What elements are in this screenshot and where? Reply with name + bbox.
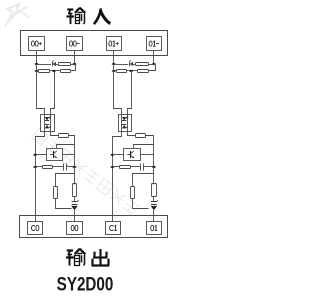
resistor R2 — [61, 70, 71, 73]
node B junction — [73, 63, 77, 65]
wire row2 bend up ch1 — [149, 65, 156, 71]
wire R4 to mid rail — [69, 136, 75, 167]
resistor R3 — [39, 70, 50, 73]
wire node C to opto — [51, 71, 55, 115]
resistor R4 — [59, 134, 69, 138]
wire row1 right ch1 — [148, 64, 155, 66]
wire base branch ch1 — [134, 145, 154, 149]
wire loop top — [74, 167, 76, 185]
wire to capacitor C1 ch1 — [130, 166, 140, 168]
wire row1 right — [71, 64, 76, 66]
terminal 01 — [147, 222, 162, 235]
output terminal strip — [20, 216, 168, 238]
terminal C1 — [106, 222, 121, 235]
wire row1 mid ch1 — [133, 64, 136, 66]
resistor R5 — [43, 166, 53, 169]
junction cap row right ch1 — [152, 166, 156, 168]
wire loop bottom — [56, 199, 72, 209]
wire R7 to zener — [74, 197, 76, 201]
wire lead from 00- terminal — [74, 51, 76, 65]
wire plus rail to opto — [37, 65, 45, 115]
wire loop left — [56, 174, 75, 187]
svg-text:SY2D00: SY2D00 — [57, 273, 114, 295]
wire opto left pin to rail — [36, 132, 45, 222]
optocoupler U1 input — [41, 115, 55, 132]
wire row1 left ch1 — [114, 64, 129, 66]
resistor R5 ch1 — [120, 166, 131, 169]
junction cap row right — [73, 166, 77, 168]
resistor R3 ch1 — [117, 70, 127, 73]
wire Q1 left — [35, 154, 46, 156]
transistor Q1 ch1 — [124, 149, 141, 161]
resistor R1 — [59, 63, 71, 66]
title output (chu) — [92, 249, 110, 265]
node A junction ch1 — [112, 63, 116, 65]
resistor R6 — [54, 187, 58, 199]
terminal 00+ — [29, 37, 45, 51]
wire row2 left ch1 — [114, 70, 117, 72]
wire lead from 01- terminal — [153, 51, 155, 65]
transistor Q1 — [47, 149, 63, 161]
wire opto left pin to rail ch1 — [113, 132, 122, 222]
terminal C0 — [28, 222, 43, 235]
wire cap row right — [67, 166, 75, 168]
title output (shu) — [66, 249, 85, 266]
wire to capacitor C1 — [53, 166, 63, 168]
resistor R4 ch1 — [136, 134, 146, 138]
junction left rail lower ch1 — [111, 166, 115, 168]
resistor R6 ch1 — [131, 187, 135, 199]
wire opto right pin — [51, 132, 59, 136]
zener diode D1 — [52, 61, 56, 67]
resistor R7 ch1 — [152, 184, 157, 197]
wire node C to opto ch1 — [128, 71, 132, 115]
wire cap row left — [35, 166, 42, 168]
wire loop bottom ch1 — [133, 199, 149, 209]
capacitor C1 ch1 — [141, 163, 144, 170]
wire plus rail to opto ch1 — [114, 65, 122, 115]
wire loop left ch1 — [133, 174, 154, 187]
wire Q1 right — [63, 154, 75, 156]
wire row2 mid ch1 — [127, 70, 138, 72]
optocoupler U1 input ch1 — [119, 115, 132, 132]
wire lead from 01+ terminal — [113, 51, 115, 65]
junction left rail upper — [33, 154, 37, 156]
wire row2 left — [37, 70, 40, 72]
wire base branch — [57, 145, 75, 149]
node A2 junction ch1 — [112, 70, 116, 72]
node B junction ch1 — [152, 63, 156, 65]
wire lead to 00 terminal — [74, 210, 76, 221]
wire R7 to zener ch1 — [153, 197, 155, 201]
terminal 01- — [147, 37, 162, 51]
title input (ru) — [94, 8, 110, 24]
wire cap row right ch1 — [144, 166, 154, 168]
wire lead from 00+ terminal — [36, 51, 38, 65]
wire row1 left — [37, 64, 52, 66]
node A junction — [35, 63, 39, 65]
wire row2 bend up — [71, 65, 76, 71]
input terminal strip — [21, 31, 168, 56]
resistor R7 — [73, 184, 77, 197]
wire loop top ch1 — [153, 167, 155, 185]
node C junction — [52, 70, 56, 72]
wire opto right pin ch1 — [128, 132, 136, 136]
junction left rail upper ch1 — [111, 154, 115, 156]
terminal 00- — [67, 37, 83, 51]
resistor R1 ch1 — [136, 63, 149, 66]
wire Q1 right ch1 — [140, 154, 154, 156]
title input (shu) — [67, 8, 86, 24]
wire R4 to mid rail ch1 — [146, 136, 154, 167]
wire Q1 left ch1 — [112, 154, 123, 156]
node A2 junction — [35, 70, 39, 72]
node C junction ch1 — [129, 70, 133, 72]
capacitor C1 — [64, 163, 67, 170]
watermark — [5, 4, 139, 215]
resistor R2 ch1 — [138, 70, 149, 73]
wire row2 mid — [50, 70, 61, 72]
protection diode D2 ch1 — [151, 200, 159, 210]
wire row1 mid — [56, 64, 59, 66]
wire lead to 01 terminal ch1 — [153, 210, 155, 221]
protection diode D2 — [71, 200, 79, 210]
terminal 00 — [67, 222, 83, 235]
wire cap row left ch1 — [112, 166, 119, 168]
zener diode D1 ch1 — [129, 61, 133, 67]
terminal 01+ — [107, 37, 122, 51]
junction left rail lower — [33, 166, 37, 168]
